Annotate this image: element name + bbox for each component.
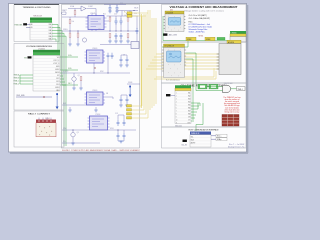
ground <box>120 37 122 41</box>
svg-text:IN7: IN7 <box>188 111 191 113</box>
svg-text:TRIM_SEL: TRIM_SEL <box>14 24 22 26</box>
svg-text:IN8: IN8 <box>188 114 191 116</box>
reference M5 <box>230 31 246 42</box>
wire REF_GND <box>16 96 52 98</box>
svg-text:I2C_5V: I2C_5V <box>182 144 188 146</box>
wire: green nets box A <box>162 16 230 47</box>
voltage reference U2 <box>33 48 60 92</box>
net label (yellow) tap B <box>127 109 132 111</box>
power port (down arrow) <box>56 93 59 109</box>
svg-text:OUT: OUT <box>187 123 190 125</box>
capacitor C27 <box>109 5 112 11</box>
svg-text:HOST COMMUNICATION INTERFACE: HOST COMMUNICATION INTERFACE <box>189 128 220 131</box>
probe label box A <box>163 33 167 35</box>
junction dots bottom <box>73 130 119 131</box>
svg-text:TRIM_B: TRIM_B <box>13 78 19 80</box>
pin stub U1 left pin 2 <box>26 26 30 28</box>
capacitor C10 <box>126 57 129 63</box>
wire: small purple stub near bus <box>127 83 140 85</box>
svg-text:SW2: SW2 <box>100 71 104 73</box>
resistor R5 <box>80 77 82 81</box>
svg-text:NC2: NC2 <box>56 78 59 80</box>
net labels on bus <box>124 11 126 17</box>
svg-text:SNS-: SNS- <box>68 68 72 70</box>
logic IC A (green) <box>198 84 207 89</box>
hyperlink lines <box>189 23 212 34</box>
ground <box>120 103 122 105</box>
svg-text:Ch1: 0V to 16V (BATT): Ch1: 0V to 16V (BATT) <box>189 14 208 17</box>
ground <box>120 63 122 65</box>
port label SDA <box>216 138 227 141</box>
capacitor C14 <box>123 120 126 126</box>
resistor R21 <box>109 17 111 21</box>
svg-text:3V3: 3V3 <box>120 3 123 5</box>
svg-text:IN1: IN1 <box>188 93 191 95</box>
svg-text:VREF: VREF <box>187 39 192 41</box>
net label (yellow) tap C <box>127 113 132 115</box>
resistor R4 <box>77 33 79 37</box>
capacitor C13 <box>117 120 120 126</box>
svg-text:TMR-1: TMR-1 <box>238 89 243 91</box>
functional block border: FAULT CURRENT <box>14 111 64 147</box>
bus: yellow horizontals into ADC M2 <box>146 54 219 79</box>
svg-text:FB: FB <box>106 93 108 95</box>
net label (yellow) top tap A <box>127 12 132 14</box>
svg-text:LT3094: LT3094 <box>95 114 100 116</box>
svg-text:LT8609: LT8609 <box>92 48 97 50</box>
comparator U5 <box>175 85 191 124</box>
ground <box>73 81 75 88</box>
wire: aux top net <box>104 5 126 7</box>
ground <box>109 38 111 41</box>
svg-text:timing and recovery.: timing and recovery. <box>224 111 240 114</box>
svg-text:VOUT_S: VOUT_S <box>53 63 59 65</box>
capacitor C9 <box>120 57 123 63</box>
svg-text:VOUT_F: VOUT_F <box>53 60 59 62</box>
IC U14 (highlighted) <box>88 116 110 130</box>
svg-text:LT3045: LT3045 <box>90 13 95 15</box>
svg-text:V+: V+ <box>124 11 126 13</box>
stub to U5 <box>171 94 175 96</box>
ground <box>109 9 111 11</box>
ground <box>77 38 79 45</box>
junction dots mid rail <box>94 73 109 74</box>
resistor R23 <box>127 17 129 21</box>
wire: C11 C12 top <box>121 95 127 97</box>
wire: bottom of ladder <box>100 44 131 46</box>
op-amp U10 <box>81 6 86 11</box>
svg-text:FAULT CURRENT: FAULT CURRENT <box>28 112 51 115</box>
svg-text:VREG: VREG <box>63 29 68 31</box>
bus: yellow bottom taps <box>132 106 148 118</box>
svg-text:TRIMMING & SWITCHING: TRIMMING & SWITCHING <box>23 7 51 9</box>
wire: U1 output bus (green) <box>52 25 72 147</box>
ground <box>69 107 71 110</box>
logic IC B (green) <box>209 84 218 89</box>
capacitor C25 <box>115 33 118 39</box>
wire: green stubs into mid cluster <box>72 57 78 85</box>
capacitor C26 <box>120 33 123 39</box>
capacitor C16 <box>123 133 126 139</box>
svg-text:TRIM_C: TRIM_C <box>13 81 20 83</box>
ground <box>80 81 82 88</box>
capacitor C7 <box>107 53 110 59</box>
ADC U3 <box>164 11 186 32</box>
IC U12 (highlighted) <box>85 50 106 63</box>
capacitor C24 <box>136 28 139 34</box>
svg-text:VOLTAGE REFERENCING: VOLTAGE REFERENCING <box>26 45 52 48</box>
svg-text:NC3: NC3 <box>56 81 59 83</box>
AND gate U6 <box>196 83 237 92</box>
wire: U2 left input stubs (green) <box>20 75 33 84</box>
svg-text:FIGURE 1. POWER SUPPLY AND MEA: FIGURE 1. POWER SUPPLY AND MEASUREMENT S… <box>62 149 141 152</box>
no-ERC cross <box>43 96 45 98</box>
svg-text:SHDN: SHDN <box>55 72 59 74</box>
port label TMR-1 <box>237 87 246 91</box>
svg-text:Q2: Q2 <box>78 75 80 77</box>
svg-text:IN6: IN6 <box>188 108 191 110</box>
no-ERC cross mid <box>94 67 95 68</box>
capacitor C23 <box>120 18 123 24</box>
svg-text:ISET: ISET <box>68 83 72 85</box>
svg-text:VIN: VIN <box>57 57 60 59</box>
svg-text:IN4: IN4 <box>188 102 191 104</box>
svg-text:IN2: IN2 <box>188 96 191 98</box>
svg-text:COMP: COMP <box>88 6 93 8</box>
wire: green verticals to detection block <box>186 53 196 120</box>
functional block border: ON-TIME FAULT DETECTION <box>162 83 247 127</box>
svg-text:10k: 10k <box>72 21 75 23</box>
ADC U4 <box>162 44 186 77</box>
svg-text:VOUT2: VOUT2 <box>63 71 68 73</box>
svg-text:SW3: SW3 <box>110 128 114 130</box>
functional block border: VOLTAGE REFERENCING <box>14 44 64 111</box>
bus: analog channel bus verticals (pale yellow) <box>142 10 156 118</box>
net label (yellow) tap A <box>127 105 132 107</box>
net label (yellow) tap D <box>127 117 132 119</box>
capacitor C28 <box>116 5 119 11</box>
mux U1 <box>30 15 52 40</box>
signature <box>227 144 245 149</box>
capacitor C12 <box>126 97 129 103</box>
net label pennant VBATT <box>61 12 66 14</box>
resistor R2 <box>69 20 71 24</box>
svg-text:SNS+: SNS+ <box>68 55 72 57</box>
net labels for U2 inputs <box>13 74 20 86</box>
wire: ladder top rail <box>107 16 139 45</box>
svg-text:EN2: EN2 <box>63 103 66 105</box>
wire: aux net y10.5 <box>118 11 138 17</box>
svg-text:NET01: NET01 <box>199 36 204 38</box>
svg-text:FB1: FB1 <box>98 29 101 31</box>
svg-text:ADC_CNV: ADC_CNV <box>169 34 178 37</box>
svg-text:TMUX1109: TMUX1109 <box>33 15 42 17</box>
junction dot aux <box>134 10 135 11</box>
net label (yellow) VREF1 <box>186 37 196 41</box>
wire: lower mid rail <box>62 97 113 105</box>
IC U13 (highlighted) <box>85 92 106 105</box>
transistor Q2 <box>72 77 76 81</box>
wire: mid rail y73 <box>62 55 130 77</box>
svg-text:Files:: Files: <box>189 21 194 23</box>
ground <box>126 103 128 105</box>
svg-text:C13: C13 <box>115 113 118 115</box>
ground <box>116 9 118 11</box>
ground <box>117 139 119 141</box>
wire: op-amp input/output <box>62 9 96 32</box>
svg-text:VBUS: VBUS <box>134 8 138 10</box>
power port (blue, center-right) <box>129 86 132 97</box>
svg-text:VOLTAGE & CURRENT ADC MEASUREM: VOLTAGE & CURRENT ADC MEASUREMENT <box>170 6 239 9</box>
svg-text:REF_GND: REF_GND <box>17 95 26 97</box>
net label (yellow) top tap B <box>127 15 132 17</box>
svg-text:R21: R21 <box>103 14 106 16</box>
annotation: channels <box>189 14 211 23</box>
center schematic area border <box>62 5 140 149</box>
junction dots rail <box>70 31 129 32</box>
ADC M2 <box>217 37 241 74</box>
svg-text:GND2: GND2 <box>55 69 59 71</box>
svg-text:10: 10 <box>176 120 178 122</box>
small IC X1 <box>131 42 139 49</box>
functional block border: middle right <box>162 42 247 83</box>
probe label box C <box>166 94 170 96</box>
wire: U5 outputs (green) <box>191 103 203 131</box>
port label SCL <box>216 134 227 137</box>
IC U11 (highlighted) <box>86 14 107 32</box>
probe label on U1 pin <box>23 23 27 25</box>
transistor Q1 <box>82 38 86 42</box>
warning note (red text) <box>223 96 240 114</box>
svg-text:IN3: IN3 <box>188 99 191 101</box>
svg-text:74LVC1G08: 74LVC1G08 <box>224 83 233 85</box>
resistor R26 <box>127 34 129 38</box>
wire: P1 to port labels <box>211 136 216 139</box>
svg-text:Q3: Q3 <box>77 132 79 134</box>
functional block border: TRIMMING & SWITCHING <box>14 4 59 42</box>
svg-text:Voltage divider scaling with 0: Voltage divider scaling with 0.1% resist… <box>184 10 224 13</box>
svg-text:VSNS: VSNS <box>128 82 132 84</box>
fault table (red blocks) <box>222 115 239 127</box>
svg-text:IN5: IN5 <box>188 105 191 107</box>
svg-text:TRIM_D: TRIM_D <box>13 84 20 86</box>
functional block border: VOLTAGE & CURRENT ADC MEASUREMENT <box>162 5 247 43</box>
bus: bright yellow rail <box>140 14 142 108</box>
ground <box>69 38 71 45</box>
transistor Q3 <box>71 133 75 137</box>
ground <box>72 137 74 143</box>
svg-text:C22: C22 <box>114 14 117 16</box>
bus: yellow top taps <box>132 13 148 16</box>
svg-text:Ch2: -10A to 10A (SHUNT): Ch2: -10A to 10A (SHUNT) <box>189 17 211 20</box>
svg-text:VIN3: VIN3 <box>63 128 67 130</box>
svg-text:8-ch simultaneous: 8-ch simultaneous <box>166 78 180 81</box>
svg-text:GND3: GND3 <box>55 87 59 89</box>
svg-text:11: 11 <box>176 123 178 125</box>
wire: rail y31 <box>62 30 138 32</box>
probe label on U2 pin <box>28 56 32 58</box>
capacitor C15 <box>117 133 120 139</box>
ground <box>115 37 117 41</box>
pin stub U1 left pin 1 <box>26 24 30 26</box>
wire: bottom rails <box>62 115 136 143</box>
svg-text:Gerber + BOM Files: Gerber + BOM Files <box>189 32 205 34</box>
svg-text:LT8609: LT8609 <box>92 90 97 92</box>
svg-text:GN: GN <box>188 117 190 119</box>
resistor R25 <box>109 34 111 38</box>
probe label box D <box>183 140 187 143</box>
resistor R3 <box>69 33 71 37</box>
ground <box>127 38 129 41</box>
svg-text:VREF: VREF <box>206 39 211 41</box>
PMBus IC P1 <box>190 132 211 148</box>
ground <box>95 107 97 110</box>
svg-text:Rev C — Jul 2023: Rev C — Jul 2023 <box>229 144 245 146</box>
capacitor C22 <box>115 18 118 24</box>
svg-text:Analog Devices Inc.: Analog Devices Inc. <box>227 146 245 149</box>
capacitor C11 <box>120 97 123 103</box>
ground <box>126 63 128 65</box>
wire: U2 right outputs (green) <box>60 73 66 85</box>
resistor R1 <box>74 11 76 15</box>
svg-text:NC4: NC4 <box>56 84 59 86</box>
functional block border: HOST COMMUNICATION <box>162 127 247 148</box>
svg-text:SCL: SCL <box>191 136 194 138</box>
connector J1 <box>36 118 56 137</box>
capacitor C8 <box>111 53 114 59</box>
net label (yellow) VREF2 <box>205 37 215 41</box>
